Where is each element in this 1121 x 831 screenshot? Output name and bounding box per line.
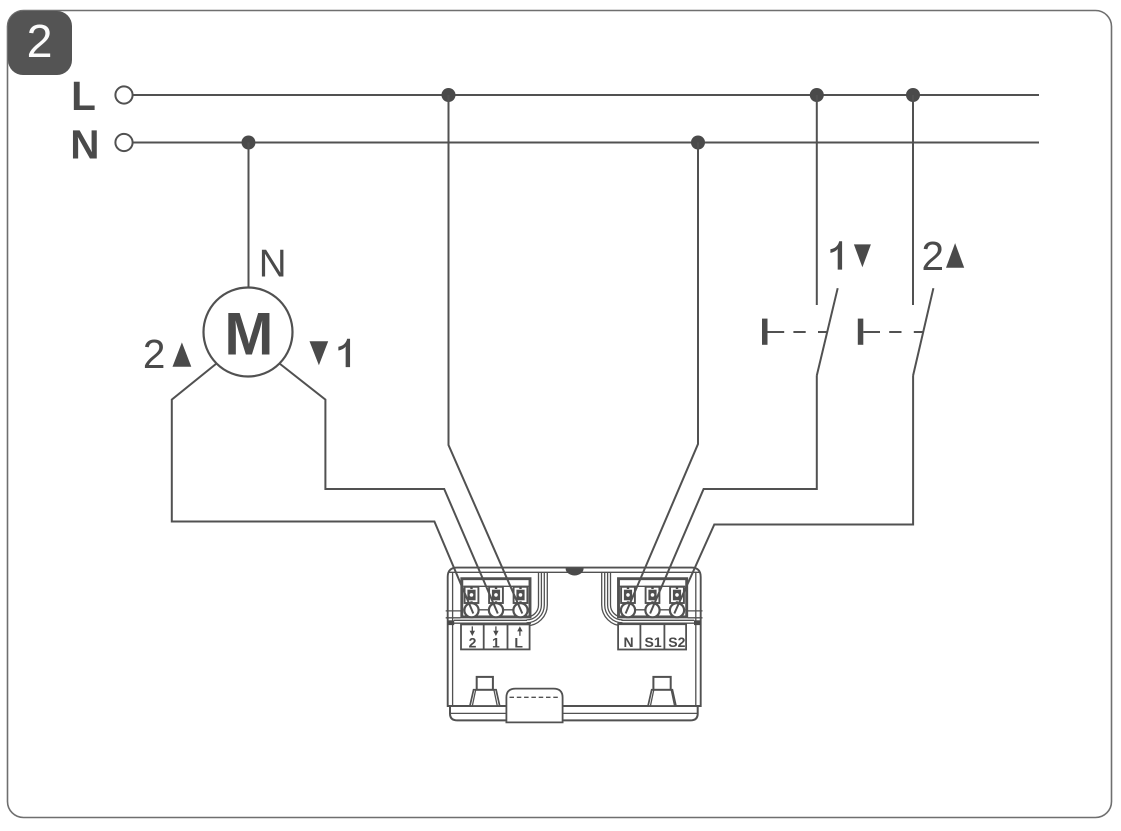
- svg-text:N: N: [259, 242, 287, 285]
- svg-text:2: 2: [143, 331, 166, 377]
- svg-text:L: L: [514, 634, 523, 650]
- svg-text:2: 2: [469, 634, 477, 650]
- svg-text:S1: S1: [645, 634, 662, 650]
- svg-text:2: 2: [27, 15, 53, 67]
- svg-text:1: 1: [492, 634, 500, 650]
- svg-text:N: N: [623, 634, 633, 650]
- svg-text:2: 2: [922, 233, 945, 279]
- svg-text:L: L: [71, 73, 96, 119]
- svg-text:N: N: [70, 122, 99, 168]
- svg-text:M: M: [224, 300, 273, 367]
- svg-text:S2: S2: [668, 634, 685, 650]
